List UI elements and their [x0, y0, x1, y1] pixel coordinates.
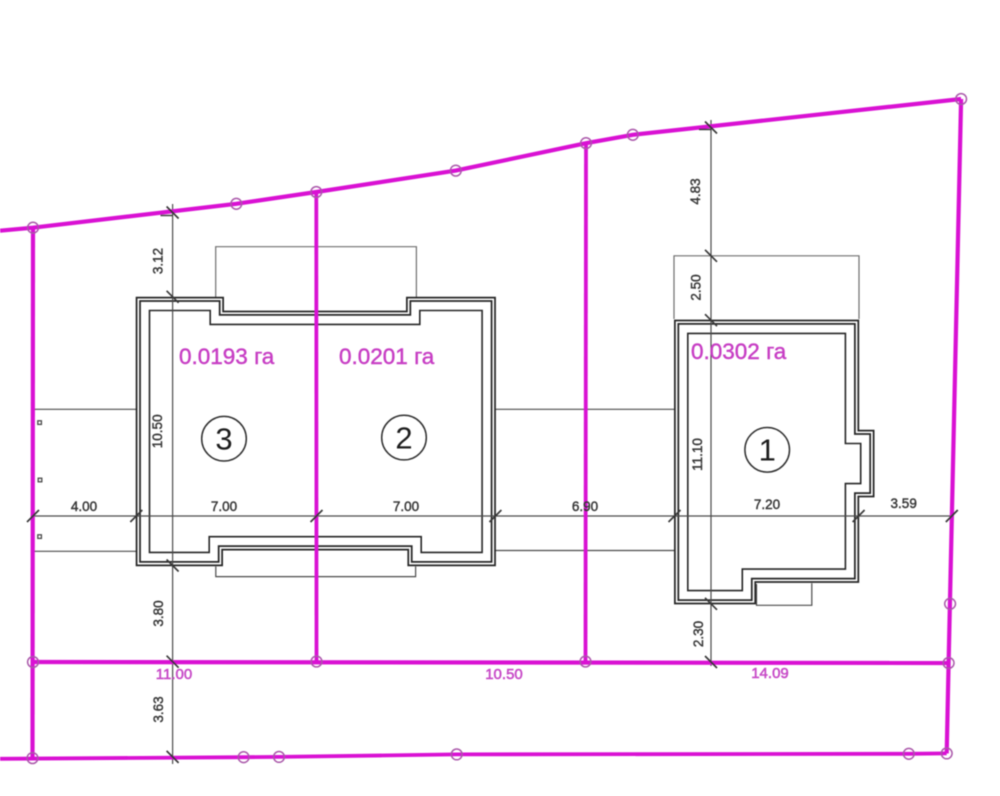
horizontal dimension line y=516	[33, 515, 952, 517]
svg-text:1: 1	[759, 433, 776, 468]
svg-text:10.50: 10.50	[150, 414, 165, 448]
vertical dimension line x=711	[710, 120, 712, 666]
svg-text:3.63: 3.63	[151, 696, 166, 722]
porch slab below building 2/3	[216, 567, 416, 577]
parcel number circle 3	[202, 416, 247, 461]
svg-text:6.90: 6.90	[572, 499, 598, 514]
magenta span labels	[156, 665, 789, 683]
svg-text:11.10: 11.10	[690, 438, 705, 471]
svg-text:0.0193 га: 0.0193 га	[179, 344, 275, 369]
svg-text:4.83: 4.83	[688, 178, 703, 204]
svg-text:2.50: 2.50	[689, 274, 704, 300]
building 2/3 inner wall line	[150, 311, 483, 553]
svg-text:2: 2	[395, 420, 412, 455]
setback connector line middle upper	[495, 408, 674, 410]
vertical dimension line x=172.6	[172, 204, 174, 764]
svg-text:3.59: 3.59	[891, 496, 917, 511]
serif bars at boundary ticks	[161, 215, 174, 217]
parcel number circle 1	[745, 428, 790, 473]
horizontal dimension labels	[71, 496, 917, 514]
parcel number circle 2	[382, 415, 427, 460]
setback connector line left lower	[34, 550, 136, 552]
building 1 inner wall line	[688, 333, 861, 590]
magenta parcel boundary right	[947, 99, 961, 753]
magenta mid parcel line	[33, 662, 949, 663]
svg-text:7.00: 7.00	[393, 499, 419, 514]
svg-text:0.0201 га: 0.0201 га	[339, 344, 435, 369]
svg-text:3.80: 3.80	[151, 600, 166, 626]
svg-text:7.20: 7.20	[754, 497, 780, 512]
svg-text:4.00: 4.00	[71, 499, 97, 514]
building 2/3 outer double outline	[138, 299, 493, 563]
magenta parcel boundary top	[0, 99, 961, 231]
dimension tick marks	[27, 122, 958, 763]
porch slab below-right of building 1	[757, 583, 812, 605]
magenta divider parcel 3/2	[314, 192, 318, 662]
magenta parcel boundary left	[30, 228, 35, 758]
setback connector line middle lower	[495, 550, 674, 552]
svg-text:7.00: 7.00	[211, 499, 237, 514]
svg-text:10.50: 10.50	[485, 666, 523, 683]
terrace slab above building 2/3	[216, 247, 417, 298]
svg-text:3.12: 3.12	[151, 248, 166, 274]
survey point squares on left boundary	[38, 421, 42, 539]
svg-text:3: 3	[215, 422, 232, 457]
magenta divider parcel 2/1	[584, 143, 588, 661]
svg-text:0.0302 га: 0.0302 га	[691, 339, 787, 364]
boundary vertex circles	[27, 94, 966, 764]
magenta parcel boundary bottom	[0, 753, 947, 758]
terrace slab above building 1	[674, 256, 859, 319]
svg-text:14.09: 14.09	[751, 665, 789, 682]
building 1 outer double outline	[677, 322, 872, 602]
svg-text:11.00: 11.00	[156, 666, 192, 683]
vertical dimension labels (rotated)	[150, 178, 706, 722]
svg-text:2.30: 2.30	[691, 621, 706, 647]
setback connector line left upper	[34, 408, 136, 410]
